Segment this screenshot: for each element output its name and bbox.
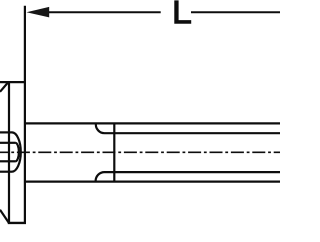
head bottom chamfer: [0, 210, 9, 223]
shank bottom line: [26, 181, 280, 183]
centerline: [0, 151, 280, 153]
thread boundary vertical line: [113, 123, 115, 181]
label L: [174, 0, 191, 23]
boss line 1: [0, 131, 12, 133]
arrowhead: [27, 7, 50, 18]
dimension line right segment: [191, 11, 280, 13]
head inner vertical line: [8, 82, 10, 223]
boss outer arc: [12, 132, 21, 171]
head top edge: [0, 81, 26, 83]
shank top line: [26, 122, 280, 124]
extension line / head right face: [24, 6, 26, 224]
head bottom edge: [8, 222, 26, 224]
thread minor bottom line with runout: [96, 172, 280, 181]
boss line 4: [0, 171, 12, 173]
thread minor top line with runout: [96, 124, 280, 133]
dimension line left segment: [45, 11, 161, 13]
head top chamfer: [0, 82, 8, 92]
boss inner arc: [15, 143, 19, 162]
boss line 3: [0, 160, 15, 162]
boss line 2: [0, 142, 15, 144]
